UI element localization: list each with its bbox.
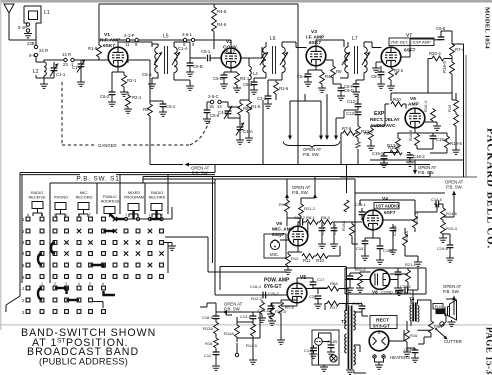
ground below R2-1 xyxy=(120,92,128,96)
cathode stem V1 xyxy=(112,67,124,78)
svg-text:R4-5: R4-5 xyxy=(217,9,227,14)
svg-text:B: B xyxy=(41,213,44,217)
AVC line to bus xyxy=(149,116,151,165)
cutter arrowhead xyxy=(443,336,447,340)
osc padder cap C6-6 xyxy=(206,102,208,110)
cathode parts below V2 xyxy=(224,68,237,75)
decoupling cap C19-1 xyxy=(321,222,323,228)
switch separator x97 xyxy=(96,183,98,214)
row labels xyxy=(22,217,25,315)
svg-text:HEATERS: HEATERS xyxy=(390,355,410,360)
svg-text:R16-4: R16-4 xyxy=(388,145,400,150)
resistor R9B xyxy=(430,300,432,302)
svg-text:C17: C17 xyxy=(317,277,325,282)
ground below C8-2 xyxy=(377,84,385,88)
resistor R20-4 xyxy=(446,56,452,59)
wire antenna to junction xyxy=(9,39,36,41)
wire R15A down xyxy=(417,256,419,262)
ground below C15 xyxy=(361,256,369,260)
tube V9 xyxy=(288,226,308,246)
ground below L2 xyxy=(43,76,45,84)
svg-text:R19-4: R19-4 xyxy=(446,226,458,231)
trimmer arrow on L5 left xyxy=(154,52,162,65)
ground below R15A wire xyxy=(414,262,422,266)
T2 secondary upper winding xyxy=(353,311,355,330)
svg-text:C6-2: C6-2 xyxy=(100,94,110,99)
link stem mixed program xyxy=(132,211,134,219)
cap C6-5 xyxy=(440,31,442,37)
svg-text:1: 1 xyxy=(22,217,25,222)
coupling cap C14-5 xyxy=(436,201,439,208)
svg-text:R15A: R15A xyxy=(404,231,409,241)
svg-text:MODEL 1054: MODEL 1054 xyxy=(484,7,491,49)
svg-text:PHONO: PHONO xyxy=(54,195,68,200)
heater wires xyxy=(375,358,384,365)
svg-text:6SF7: 6SF7 xyxy=(404,48,416,54)
trimmer arrow L7 right xyxy=(362,52,370,65)
resistor R16-4 xyxy=(432,108,434,109)
L6 secondary return C4-3 xyxy=(268,80,282,96)
bus wire y179 xyxy=(143,178,355,180)
row5 contacts xyxy=(26,263,163,267)
bus wire y164.5 xyxy=(150,164,430,166)
arrowhead bottom right arrow xyxy=(452,296,456,301)
svg-text:(PUBLIC ADDRESS): (PUBLIC ADDRESS) xyxy=(39,357,128,367)
cutter contact dot xyxy=(435,328,437,330)
link rows3-4 col55 xyxy=(51,243,55,254)
right chain cap C13-1 xyxy=(252,312,254,316)
row1 contacts xyxy=(26,217,163,221)
AVC wire with terminals xyxy=(99,40,214,49)
ground below C14B xyxy=(327,352,335,356)
grid resistor R19A xyxy=(352,222,356,224)
rect label box xyxy=(370,316,397,329)
svg-text:L4: L4 xyxy=(253,71,258,76)
svg-text:R19-5: R19-5 xyxy=(450,141,462,146)
svg-text:C20-2: C20-2 xyxy=(268,291,280,296)
bus drop x215 xyxy=(214,165,216,173)
svg-text:R10: R10 xyxy=(316,258,324,263)
svg-text:A: A xyxy=(27,213,30,217)
ground below C5-1 xyxy=(159,112,167,116)
svg-text:2ND DET, E EXP AMP: 2ND DET, E EXP AMP xyxy=(391,40,431,45)
svg-text:C6-3: C6-3 xyxy=(243,82,253,87)
svg-text:RECT. DELAY: RECT. DELAY xyxy=(370,117,400,122)
tube V2 xyxy=(221,48,241,68)
svg-text:V4: V4 xyxy=(382,196,388,202)
svg-text:P.B. SW.: P.B. SW. xyxy=(418,170,435,175)
output transformer T4 left coil xyxy=(410,305,412,321)
resistor R16-4b xyxy=(390,150,398,153)
svg-text:AMP: AMP xyxy=(408,102,419,108)
svg-text:2: 2 xyxy=(54,282,56,286)
resistor R21-1 xyxy=(407,268,409,270)
wire into V8 xyxy=(345,272,371,280)
cathode resistor R7-5 xyxy=(280,300,282,302)
cap C14B xyxy=(330,341,332,345)
row4 contacts xyxy=(26,251,164,255)
ground below C19-2 xyxy=(330,244,338,248)
heater dots xyxy=(374,356,375,357)
L6 outer wires xyxy=(266,42,296,80)
svg-text:C13-2: C13-2 xyxy=(400,284,412,289)
svg-text:C5-B: C5-B xyxy=(193,64,203,69)
microphone symbol xyxy=(270,240,279,249)
tube V1 electrodes xyxy=(112,48,124,67)
tube V7 electrodes xyxy=(385,48,397,67)
grid stopper cap C16-1a xyxy=(361,208,363,212)
svg-text:P.B. SW.: P.B. SW. xyxy=(446,185,463,190)
lamp box xyxy=(312,330,339,365)
horizontal scan crease line xyxy=(0,324,492,325)
wire cap to V2 xyxy=(210,57,221,59)
svg-text:6SA7: 6SA7 xyxy=(223,50,235,56)
resistor R17 xyxy=(318,303,327,305)
svg-text:R13-6: R13-6 xyxy=(361,129,373,134)
osc resistor R8-8 xyxy=(239,100,241,103)
ground below C6-3 xyxy=(250,90,258,94)
wire V8 right xyxy=(390,268,419,290)
wire L7 to V7 grid xyxy=(372,47,382,49)
wire C6-5 top xyxy=(441,31,452,44)
cap C19-6 xyxy=(443,234,450,245)
row8 contacts xyxy=(26,298,92,302)
rect tube electrodes xyxy=(373,331,386,345)
arrowhead x336 xyxy=(334,136,338,141)
wire cathode xyxy=(271,300,297,306)
ganged dashed line horizontal xyxy=(62,144,190,146)
svg-text:C14-7: C14-7 xyxy=(404,347,416,352)
cap C16-5 xyxy=(384,153,390,157)
svg-text:C19-6: C19-6 xyxy=(437,246,449,251)
AVC resistor R5 xyxy=(148,104,153,116)
screen bypass C6-D xyxy=(333,84,341,88)
terminal 2-1P a xyxy=(126,38,129,41)
svg-text:P.B. SW.: P.B. SW. xyxy=(443,289,460,294)
svg-text:R1-9: R1-9 xyxy=(88,46,98,51)
tube V5 xyxy=(287,283,307,303)
wire x321 xyxy=(320,101,322,136)
ground below R4-2 xyxy=(318,88,326,92)
resistor R19-4 xyxy=(441,222,446,234)
svg-text:R7-5: R7-5 xyxy=(285,305,294,310)
svg-text:R4-2: R4-2 xyxy=(325,74,335,79)
cap C17 xyxy=(312,278,314,282)
switch right edge xyxy=(213,177,216,296)
ground below R2-2 xyxy=(124,109,132,113)
L4 bottom wire xyxy=(248,80,250,101)
tube V10 rect xyxy=(369,331,389,351)
svg-text:MIC. AMP: MIC. AMP xyxy=(272,227,295,233)
svg-text:R13A: R13A xyxy=(203,326,213,331)
switch separator x120 xyxy=(119,175,121,214)
ground below R12-2 xyxy=(258,318,266,322)
svg-text:1: 1 xyxy=(41,282,43,286)
svg-text:C11: C11 xyxy=(204,353,212,358)
resistor R20 xyxy=(385,103,389,105)
svg-text:6SF7: 6SF7 xyxy=(384,210,396,216)
arrowhead up x287 xyxy=(285,194,289,199)
button RADIO RECORD xyxy=(151,204,162,211)
T4 right coil xyxy=(417,306,419,322)
svg-text:23: 23 xyxy=(63,62,68,67)
svg-text:C16-4: C16-4 xyxy=(250,284,262,289)
wire x215 bottom to V5 grid xyxy=(215,294,287,296)
pilot lamp xyxy=(315,338,323,346)
svg-text:L6: L6 xyxy=(270,36,276,42)
svg-text:5-1P: 5-1P xyxy=(18,25,27,30)
cap C12-3 xyxy=(357,94,359,104)
tube V9 electrodes xyxy=(292,227,304,246)
cap C20 xyxy=(317,289,319,295)
svg-text:C15-1: C15-1 xyxy=(436,137,448,142)
IF transformer L6 right coil xyxy=(282,47,285,73)
frame stub right xyxy=(466,176,477,178)
svg-text:C16-5: C16-5 xyxy=(202,315,214,320)
tube V2 electrodes xyxy=(225,49,237,68)
svg-text:1ST AUDIO: 1ST AUDIO xyxy=(376,204,400,209)
svg-text:3: 3 xyxy=(65,282,67,286)
arrowhead x327 xyxy=(325,136,329,141)
tone box outline xyxy=(226,312,260,338)
screen dropper R4-6 xyxy=(213,18,215,21)
svg-text:R11-6: R11-6 xyxy=(355,267,366,272)
svg-text:MIC.: MIC. xyxy=(270,252,279,257)
osc terminals 2-5-C xyxy=(207,101,210,103)
plate load R15A xyxy=(404,228,406,234)
V8 right cap C20B xyxy=(397,268,399,272)
wire bottom bus y312 arrow xyxy=(226,311,246,313)
terminal 5-1P bottom xyxy=(26,29,29,32)
mic input box xyxy=(264,234,286,258)
page left scan edge xyxy=(0,0,1,330)
V6 section bottom wire xyxy=(370,159,464,161)
link row6 col103-115 xyxy=(104,291,116,295)
link row5 col90-103 xyxy=(91,265,104,268)
bus drop x287 xyxy=(286,179,288,197)
svg-text:V9: V9 xyxy=(276,221,282,227)
switch separator x168 xyxy=(167,175,169,273)
svg-text:2: 2 xyxy=(22,229,25,234)
svg-text:R9B: R9B xyxy=(434,324,442,329)
row9 contacts xyxy=(26,310,105,314)
wire V2 plate to L6 xyxy=(241,47,262,58)
svg-text:V7: V7 xyxy=(406,33,412,39)
ganged dashed curve to osc xyxy=(190,121,210,145)
svg-text:R16: R16 xyxy=(410,333,418,338)
resistor R19-5 xyxy=(433,133,447,136)
coupling cap C16-4 xyxy=(258,294,263,296)
ground below C4-3 xyxy=(264,104,272,108)
svg-text:R5: R5 xyxy=(143,107,149,112)
link row7 col55-66 xyxy=(55,288,67,294)
svg-text:C5-D: C5-D xyxy=(213,76,223,81)
wire right edge down xyxy=(431,290,446,299)
row2 contacts xyxy=(26,229,163,233)
ground below R19-5b xyxy=(268,321,276,325)
svg-text:3: 3 xyxy=(22,310,25,315)
svg-text:23B: 23B xyxy=(27,41,35,46)
cap C14A xyxy=(313,345,315,348)
svg-text:C5-1: C5-1 xyxy=(166,104,176,109)
ground below C5-B xyxy=(186,72,194,76)
R3-2 arm arrow xyxy=(395,72,398,74)
ground below C16-2 xyxy=(406,162,414,166)
tone cap C11 xyxy=(215,348,217,352)
svg-text:6SQ7: 6SQ7 xyxy=(272,232,285,238)
svg-text:V8: V8 xyxy=(372,290,378,295)
ground below C6-6 xyxy=(203,119,211,123)
ground below C5-D xyxy=(220,84,228,88)
svg-text:14 R: 14 R xyxy=(62,52,71,57)
svg-text:6: 6 xyxy=(102,282,104,286)
svg-text:D: D xyxy=(65,213,68,217)
wire R20 to tube xyxy=(405,104,407,109)
button RADIO RECEIVE xyxy=(32,202,43,209)
speaker field coil bar xyxy=(436,309,445,314)
ground below R11-6 xyxy=(356,288,364,292)
svg-text:C13-3: C13-3 xyxy=(346,111,358,116)
L5 right coil wires xyxy=(173,42,175,80)
cap C13-2 top xyxy=(399,289,404,291)
V7 diode load cap C8-2 xyxy=(380,66,382,72)
bypass cap C6-2 xyxy=(111,78,113,92)
L5 left coil wires xyxy=(152,44,158,78)
svg-text:P.B. SW.: P.B. SW. xyxy=(303,152,320,157)
trimmer arrow L6 left xyxy=(260,52,268,65)
L7 primary bypass C6-E xyxy=(340,77,348,79)
plate wire V9 xyxy=(303,222,308,236)
terminal 9-6 xyxy=(34,53,37,56)
V4 box left xyxy=(354,193,356,268)
resistor R21-2 xyxy=(301,198,315,204)
svg-text:C16-2: C16-2 xyxy=(413,154,425,159)
T2 primary lower winding xyxy=(345,334,347,353)
resistor R16c xyxy=(406,321,408,330)
bus drop x315 xyxy=(314,177,316,198)
resistor R15 xyxy=(455,93,457,100)
svg-text:V2: V2 xyxy=(226,39,232,45)
svg-text:R21-2: R21-2 xyxy=(304,206,316,211)
svg-text:R21-1: R21-1 xyxy=(405,262,417,267)
open-at arrow xyxy=(414,160,416,171)
terminal 2-6-1 a xyxy=(183,38,186,41)
L7 core xyxy=(355,46,358,74)
svg-text:R7-6: R7-6 xyxy=(342,126,352,131)
ground below R19-4 xyxy=(439,238,447,242)
svg-text:9: 9 xyxy=(135,42,138,47)
cap C14-7 xyxy=(407,348,415,350)
tone resistor R16b xyxy=(214,338,219,348)
ground below C20A xyxy=(346,288,354,292)
wire L5 to V2 grid xyxy=(174,42,206,58)
svg-text:PACKARD BELL CO.: PACKARD BELL CO. xyxy=(485,128,492,249)
svg-text:RECORD: RECORD xyxy=(76,195,93,200)
bus drop x143 xyxy=(142,177,144,184)
svg-text:9: 9 xyxy=(192,42,195,47)
tube V4 xyxy=(363,210,383,230)
svg-text:C6-F: C6-F xyxy=(344,84,354,89)
svg-text:L2: L2 xyxy=(33,69,39,75)
tube V8 electrodes cond-rect xyxy=(375,274,387,286)
bus drop x355 xyxy=(354,179,356,193)
ground below C20 xyxy=(314,304,322,308)
svg-text:15: 15 xyxy=(209,104,214,109)
plate wire V2 xyxy=(214,40,231,48)
resistor R4-1 xyxy=(236,72,238,73)
svg-text:GANGED: GANGED xyxy=(98,143,117,148)
svg-text:R19-5: R19-5 xyxy=(275,309,287,314)
svg-text:L: L xyxy=(149,213,151,217)
svg-text:6SK7: 6SK7 xyxy=(309,40,321,46)
resistor R16-5 xyxy=(451,59,453,63)
output transformer primary wire xyxy=(347,289,349,307)
wire x336 xyxy=(336,110,344,136)
svg-text:C6-5: C6-5 xyxy=(436,26,446,31)
svg-text:C4-B: C4-B xyxy=(218,110,228,115)
ground below R3-2 xyxy=(387,86,395,90)
wire row1 to right edge xyxy=(124,207,172,219)
svg-text:V6: V6 xyxy=(410,96,416,102)
V6 grid return R6 xyxy=(371,104,385,128)
link stem radio record xyxy=(150,211,162,219)
wire chain top xyxy=(216,312,253,322)
switch separator x50 xyxy=(49,183,51,283)
speaker field label box xyxy=(433,304,443,309)
switch box left double line xyxy=(20,173,22,297)
link rows4-5 col42 xyxy=(38,254,42,266)
tube V4 electrodes xyxy=(367,211,379,230)
cap C13-3 xyxy=(355,112,362,115)
svg-text:C15: C15 xyxy=(356,246,364,251)
cap C5-D xyxy=(221,75,228,78)
ground below R12 xyxy=(284,270,292,274)
ground left of C13-2 xyxy=(398,290,400,291)
link public address row1 xyxy=(110,214,125,220)
svg-text:V3: V3 xyxy=(311,29,317,35)
V3 plate wire to L7 xyxy=(316,40,344,47)
switch box top double line xyxy=(20,173,215,175)
wire T2 sec lower to heaters xyxy=(354,345,366,373)
svg-text:R2-1: R2-1 xyxy=(132,95,142,100)
wire from bus corner xyxy=(200,303,216,307)
arrowhead bus left xyxy=(185,163,190,167)
svg-text:24 R: 24 R xyxy=(39,48,48,53)
switch inner top line xyxy=(50,182,215,184)
page top scan edge xyxy=(0,0,492,3)
svg-text:I.F. AMP: I.F. AMP xyxy=(306,35,325,41)
resistor R14-6 xyxy=(442,204,444,208)
IF transformer L7 right coil xyxy=(364,47,367,73)
wire L6 to V3 grid xyxy=(296,47,307,49)
svg-text:2-1-P: 2-1-P xyxy=(124,33,135,38)
brace under arrows xyxy=(283,142,340,148)
link row2 public xyxy=(104,230,116,232)
svg-text:F: F xyxy=(89,213,91,217)
cap C15-1 xyxy=(432,133,434,136)
svg-text:5Y3-GT: 5Y3-GT xyxy=(373,324,390,330)
svg-text:C19-2: C19-2 xyxy=(332,223,337,235)
svg-text:R16-4: R16-4 xyxy=(423,100,428,112)
ground below C1-3 xyxy=(80,67,82,82)
svg-text:M: M xyxy=(160,213,163,217)
wire row8 right xyxy=(92,302,103,309)
wire speaker to cutter xyxy=(445,314,447,322)
wire lamp box xyxy=(319,333,332,365)
screen dropper R4-5 xyxy=(213,4,215,7)
osc grid leak wire xyxy=(174,80,190,86)
B+ top wire xyxy=(99,3,298,5)
